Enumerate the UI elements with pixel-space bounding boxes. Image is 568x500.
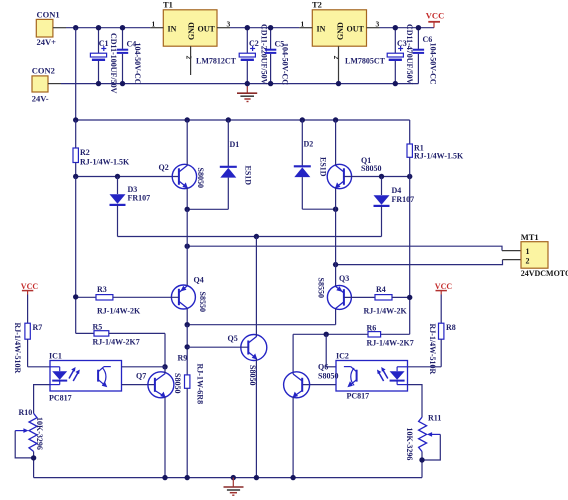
svg-text:GND: GND <box>187 22 196 40</box>
optocoupler IC1 PC817 <box>49 352 122 403</box>
junction dots top rail <box>73 25 78 30</box>
wire IC2 pin2 to R11 <box>408 385 423 418</box>
power VCC top right <box>426 10 444 27</box>
wire bottom ground rail <box>34 477 422 479</box>
svg-text:10K-3296: 10K-3296 <box>405 428 414 461</box>
regulator U/T1 LM7812CT <box>152 0 237 66</box>
svg-text:R6: R6 <box>367 324 377 333</box>
svg-text:104-50V-CC: 104-50V-CC <box>281 43 290 85</box>
wire R5 to Q7 collector node <box>164 333 166 366</box>
wire Q6 emitter to ground rail <box>292 397 294 478</box>
svg-text:LM7805CT: LM7805CT <box>345 57 386 66</box>
svg-text:RJ-1W-6R8: RJ-1W-6R8 <box>196 364 205 405</box>
wire Q1 collector <box>335 120 337 165</box>
svg-text:FR107: FR107 <box>392 195 415 204</box>
wire sense node vertical x=187.2 <box>186 325 188 375</box>
pin stub T1 pin1 <box>150 27 163 29</box>
wire left base line y=176.5 <box>76 176 179 178</box>
pin stub T2 pin2 (GND) <box>338 46 340 83</box>
wire motor output B y=264.6 to MT1 pin2 <box>336 260 503 265</box>
svg-text:VCC: VCC <box>426 10 444 20</box>
resistor R1 RJ-1/4W-1.5K (vertical) <box>407 120 464 177</box>
wire motor output A y=246.2 to MT1 pin1 <box>187 246 502 250</box>
svg-text:OUT: OUT <box>198 25 216 34</box>
svg-text:VCC: VCC <box>21 282 39 291</box>
svg-text:Q7: Q7 <box>136 372 146 381</box>
wire IC1 pin2 to R10 <box>34 385 50 414</box>
capacitor C3 CD11-470UF/50V <box>387 24 414 85</box>
wire top rail segment 1 <box>66 27 150 29</box>
svg-text:R5: R5 <box>93 323 103 332</box>
resistor R8 RJ-1/4W-510R (vertical) <box>428 295 456 375</box>
pin stub T1 pin3 <box>217 27 230 29</box>
transistor Q7 S8050 (NPN) <box>136 372 182 398</box>
junction dots ground rail <box>96 81 101 86</box>
svg-text:CD11-220UF/50V: CD11-220UF/50V <box>260 24 269 85</box>
resistor R7 RJ-1/4W-510R (vertical) <box>13 295 42 374</box>
wire Q3 collector down <box>335 309 337 325</box>
wire R8 to IC2 pin1 <box>408 366 442 368</box>
svg-text:ES1D: ES1D <box>244 166 253 186</box>
wire Q2 emitter <box>186 188 188 210</box>
svg-text:Q5: Q5 <box>228 334 238 343</box>
transistor Q1 S8050 (NPN, mirrored) <box>327 156 381 189</box>
connector MT1 24VDCMOTOR <box>521 232 568 278</box>
svg-text:104-50V-CC: 104-50V-CC <box>429 43 438 85</box>
diode D4 FR107 (pointing down) <box>374 177 415 237</box>
pin stub T2 pin1 <box>299 27 312 29</box>
junction dots on +24V bus <box>73 117 78 122</box>
potentiometer R10 10K-3296 <box>15 408 44 478</box>
junction Q5 base tap <box>185 344 190 349</box>
pin stub MT1 pin2 <box>503 259 522 261</box>
wire R7 to IC1 pin1 <box>28 366 50 368</box>
svg-text:R3: R3 <box>97 285 107 294</box>
svg-text:R9: R9 <box>178 354 188 363</box>
capacitor C5 104-50V-CC <box>265 28 290 86</box>
svg-text:RJ-1/4W-2K7: RJ-1/4W-2K7 <box>93 338 140 347</box>
junction T2 GND / rail <box>336 81 341 86</box>
wire IC1 pin4 collector to node <box>122 366 166 368</box>
svg-text:104-50V-CC: 104-50V-CC <box>133 43 142 85</box>
diode D2 ES1D (pointing up) <box>294 120 328 209</box>
svg-text:T1: T1 <box>163 0 173 10</box>
svg-text:PC817: PC817 <box>49 394 72 403</box>
svg-text:24VDCMOTOR: 24VDCMOTOR <box>521 269 568 278</box>
wire Q1 emitter <box>335 188 337 210</box>
resistor R4 RJ-1/4W-2K (horizontal) <box>344 285 410 316</box>
capacitor C4 104-50V-CC <box>117 28 142 85</box>
svg-text:10K-3296: 10K-3296 <box>35 417 44 450</box>
junction dots bottom rail <box>162 475 167 480</box>
svg-text:R4: R4 <box>376 285 386 294</box>
svg-text:S8050: S8050 <box>318 372 338 381</box>
transistor Q6 S8050 (NPN, mirrored) <box>284 363 339 398</box>
transistor Q5 S8050 (NPN) <box>228 334 267 385</box>
wire +24V vertical feed x=75.7 <box>75 28 77 120</box>
wire Q5 emitter down to ground rail <box>255 359 257 478</box>
svg-text:MT1: MT1 <box>521 232 539 242</box>
wire Q5 base <box>187 346 248 348</box>
svg-text:R8: R8 <box>446 323 456 332</box>
svg-text:Q3: Q3 <box>339 274 349 283</box>
wire Q6 collector up <box>292 334 294 374</box>
diode D3 FR107 (pointing down) <box>110 177 151 237</box>
resistor R6 RJ-1/4W-2K7 (horizontal) <box>293 324 414 348</box>
wire Q7 collector <box>164 367 166 374</box>
svg-text:RJ-1/4W-2K: RJ-1/4W-2K <box>364 307 408 316</box>
power VCC left <box>21 282 39 295</box>
wire Q5 collector up to current-limit node <box>255 237 257 337</box>
wire IC2 pin3 emitter to Q6 base <box>302 384 336 386</box>
pin stub T1 pin2 (GND, floating) <box>190 46 192 75</box>
power VCC right <box>435 282 453 295</box>
diode D1 ES1D (pointing up) <box>220 120 253 209</box>
svg-text:R11: R11 <box>428 414 441 423</box>
svg-text:GND: GND <box>336 22 345 40</box>
svg-text:S8050: S8050 <box>173 373 182 393</box>
wire D2 cathode to Q1 emitter <box>302 208 335 210</box>
svg-text:CON2: CON2 <box>32 66 55 76</box>
svg-text:R7: R7 <box>33 323 43 332</box>
junction node A / D1 <box>185 207 190 212</box>
svg-text:T2: T2 <box>312 0 322 10</box>
ground symbol below C2 <box>237 84 257 102</box>
wire x=75.7 rail down to R3/R5 <box>75 177 77 334</box>
wire node A vertical x=187.2 <box>186 209 188 246</box>
wire right rail x=409.7 down <box>409 177 411 335</box>
svg-text:CD11-100UF/50V: CD11-100UF/50V <box>109 33 118 94</box>
pin stub T2 pin3 <box>367 27 380 29</box>
svg-text:OUT: OUT <box>347 25 365 34</box>
svg-text:S8550: S8550 <box>198 292 207 312</box>
junction R2/base node <box>73 174 78 179</box>
svg-text:Q6: Q6 <box>318 363 328 372</box>
resistor R2 RJ-1/4W-1.5K (vertical, in x=75.7 rail) <box>73 120 130 177</box>
connector CON1 <box>36 9 59 47</box>
wire right base line y=176.5 <box>344 176 410 178</box>
svg-text:2: 2 <box>184 56 193 60</box>
transistor Q3 S8550 (PNP, mirrored) <box>317 274 352 309</box>
svg-text:2: 2 <box>526 257 530 266</box>
ground symbol bottom <box>224 478 244 496</box>
junction node B / output wire <box>333 262 338 267</box>
svg-text:D4: D4 <box>392 186 402 195</box>
wire Q4 collector down <box>186 308 188 325</box>
transistor Q2 S8050 (NPN) <box>159 163 205 189</box>
junction D3 top <box>115 174 120 179</box>
capacitor C2 CD11-220UF/50V <box>239 24 268 85</box>
wire ground rail (24V-) <box>61 83 418 85</box>
svg-text:S8050: S8050 <box>196 168 205 188</box>
junction Q7 collector node <box>162 364 167 369</box>
junction node A / output wire <box>185 244 190 249</box>
resistor R5 RJ-1/4W-2K7 (horizontal) <box>76 323 165 347</box>
svg-text:PC817: PC817 <box>347 392 370 401</box>
svg-text:VCC: VCC <box>435 282 453 291</box>
svg-text:1: 1 <box>526 247 530 256</box>
junction Q5 collector node <box>254 234 259 239</box>
wire IC1 pin3 emitter to Q7 base <box>122 384 155 386</box>
svg-text:Q2: Q2 <box>159 163 169 172</box>
resistor R3 RJ-1/4W-2K (horizontal) <box>76 285 179 316</box>
junction R6/IC2 tap <box>324 332 329 337</box>
pin stub CON1 <box>53 27 66 29</box>
pin stub CON2 <box>48 83 61 85</box>
svg-text:RJ-1/4W-2K7: RJ-1/4W-2K7 <box>367 339 414 348</box>
svg-text:LM7812CT: LM7812CT <box>196 57 237 66</box>
svg-text:FR107: FR107 <box>128 194 151 203</box>
wire bridge bottom y=324.7 (Q4 to Q3) <box>187 324 335 326</box>
svg-text:RJ-1/4W-510R: RJ-1/4W-510R <box>13 323 22 374</box>
svg-text:R10: R10 <box>19 408 33 417</box>
svg-text:RJ-1/4W-2K: RJ-1/4W-2K <box>97 307 141 316</box>
svg-text:CD11-470UF/50V: CD11-470UF/50V <box>405 24 414 85</box>
wire +24V bus y=120 <box>76 119 410 121</box>
svg-text:RJ-1/4W-1.5K: RJ-1/4W-1.5K <box>80 158 130 167</box>
svg-text:S8050: S8050 <box>248 365 257 385</box>
pin stub MT1 pin1 <box>502 250 521 252</box>
regulator U/T2 LM7805CT <box>301 0 386 66</box>
wire Q4 emitter up to node A <box>186 246 188 286</box>
junction node B / D2 <box>333 207 338 212</box>
svg-text:24V+: 24V+ <box>37 37 57 47</box>
capacitor C6 104-50V-CC <box>413 28 438 85</box>
svg-text:C2: C2 <box>249 39 259 48</box>
connector CON2 <box>32 66 55 104</box>
svg-text:IC2: IC2 <box>336 352 349 361</box>
svg-text:D1: D1 <box>230 140 240 149</box>
svg-text:C1: C1 <box>99 39 109 48</box>
svg-text:S8550: S8550 <box>317 278 326 298</box>
capacitor C1 CD11-100UF/50V <box>90 28 118 94</box>
svg-text:24V-: 24V- <box>32 93 49 103</box>
svg-text:IN: IN <box>317 25 326 34</box>
junction rail/R4 <box>407 295 412 300</box>
wire current-limit node y=236.5 (D3 to D4) <box>118 236 382 238</box>
potentiometer R11 10K-3296 <box>405 414 441 478</box>
svg-text:RJ-1/4W-1.5K: RJ-1/4W-1.5K <box>414 152 464 161</box>
resistor R9 RJ-1W-6R8 (vertical) <box>178 354 205 478</box>
svg-text:D2: D2 <box>304 140 314 149</box>
svg-text:S8050: S8050 <box>361 164 381 173</box>
svg-text:CON1: CON1 <box>37 9 60 19</box>
wire top rail segment 2 <box>230 27 299 29</box>
junction rail/R3 <box>73 294 78 299</box>
junction bridge bottom <box>185 322 190 327</box>
wire Q3 emitter up to node B <box>335 265 337 287</box>
svg-text:Q4: Q4 <box>194 276 204 285</box>
wire top rail segment 3 <box>380 27 435 29</box>
optocoupler IC2 PC817 (mirrored) <box>336 352 408 401</box>
wire node B vertical x=335.6 <box>335 209 337 264</box>
svg-text:ES1D: ES1D <box>319 157 328 177</box>
transistor Q4 S8550 (PNP) <box>171 276 206 312</box>
wire Q2 collector <box>186 120 188 165</box>
svg-text:2: 2 <box>332 56 341 60</box>
svg-text:IC1: IC1 <box>49 352 62 361</box>
wire Q7 emitter to ground rail <box>164 397 166 478</box>
junction R1/base node <box>407 174 412 179</box>
junction D4 top <box>379 174 384 179</box>
wire D1 anode to Q2 emitter <box>187 208 228 210</box>
svg-text:R2: R2 <box>80 148 90 157</box>
svg-text:IN: IN <box>168 25 177 34</box>
wire IC2 collector tap down <box>325 334 327 367</box>
